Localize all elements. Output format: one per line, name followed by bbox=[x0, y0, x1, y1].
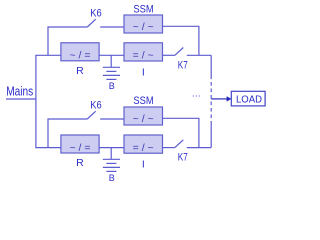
switch K6 blade bottom bbox=[87, 111, 95, 119]
svg-text:SSM: SSM bbox=[133, 3, 153, 15]
wire right bus solid top bbox=[210, 55, 212, 75]
wire I to K7 bottom bbox=[163, 147, 175, 149]
svg-text:SSM: SSM bbox=[133, 95, 153, 107]
svg-text:B: B bbox=[109, 173, 115, 183]
wire K6 to SSM top bbox=[100, 26, 124, 28]
wire riser K6 bottom bbox=[48, 119, 87, 148]
wire SSM out bottom bbox=[163, 118, 199, 147]
svg-text:B: B bbox=[109, 81, 115, 91]
svg-text:K7: K7 bbox=[178, 59, 188, 71]
wire R to I top bbox=[99, 54, 124, 56]
wire right bus dashed middle bbox=[210, 76, 212, 122]
converter box R1 (top rectifier) bbox=[61, 43, 99, 62]
switch K6 blade top bbox=[87, 19, 95, 27]
wire arrow to LOAD bbox=[211, 98, 227, 100]
wire SSM out top bbox=[163, 26, 199, 55]
wire riser K6 top bbox=[48, 27, 87, 55]
wire K7 to bus bottom bbox=[187, 147, 211, 149]
svg-text:K7: K7 bbox=[178, 151, 188, 163]
converter box SSM2 (bottom static switch module) bbox=[124, 107, 163, 125]
switch K7 blade top bbox=[175, 48, 183, 56]
battery B bars bottom bbox=[103, 159, 120, 171]
converter box R2 (bottom rectifier) bbox=[61, 135, 99, 154]
svg-text:I: I bbox=[142, 159, 145, 171]
LOAD box bbox=[231, 91, 265, 106]
wire mains bus bbox=[36, 55, 61, 147]
wire R to I bottom bbox=[99, 147, 124, 149]
converter box I2 (bottom inverter) bbox=[124, 135, 163, 154]
svg-text:...: ... bbox=[192, 88, 201, 98]
svg-text:~ / ~: ~ / ~ bbox=[133, 114, 154, 125]
svg-text:= / ~: = / ~ bbox=[133, 143, 154, 154]
wire battery stem bottom bbox=[110, 148, 112, 160]
wire battery stem top bbox=[110, 55, 112, 67]
svg-text:K6: K6 bbox=[90, 8, 101, 20]
converter box I1 (top inverter) bbox=[124, 43, 163, 62]
svg-text:= / ~: = / ~ bbox=[133, 51, 154, 62]
svg-text:~ / ~: ~ / ~ bbox=[133, 22, 154, 33]
svg-text:R: R bbox=[76, 157, 84, 169]
converter box SSM1 (top static switch module) bbox=[124, 15, 163, 33]
svg-text:~ / =: ~ / = bbox=[70, 143, 91, 154]
wire right bus solid bottom bbox=[210, 122, 212, 148]
battery B bars top bbox=[103, 67, 120, 79]
wire Mains stub bbox=[6, 98, 36, 100]
svg-text:LOAD: LOAD bbox=[236, 94, 262, 106]
svg-text:~ / =: ~ / = bbox=[70, 51, 91, 62]
svg-text:I: I bbox=[142, 67, 145, 79]
wire I to K7 top bbox=[163, 54, 175, 56]
switch K7 blade bottom bbox=[175, 140, 183, 148]
arrowhead to LOAD bbox=[227, 96, 232, 101]
svg-text:K6: K6 bbox=[90, 100, 101, 112]
wire K6 to SSM bottom bbox=[100, 118, 124, 120]
svg-text:R: R bbox=[76, 65, 84, 77]
svg-text:Mains: Mains bbox=[6, 84, 33, 98]
wire K7 to bus top bbox=[187, 54, 211, 56]
